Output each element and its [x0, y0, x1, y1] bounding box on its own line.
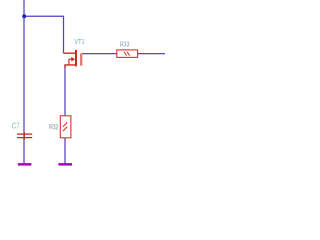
wire: supply rail vertical left: [23, 0, 25, 164]
svg-text:VT1: VT1: [74, 37, 84, 46]
resistor R32: [60, 116, 71, 138]
wire: R32 to ground: [64, 138, 66, 164]
svg-text:R32: R32: [49, 124, 58, 131]
wire: top branch horizontal to drain: [24, 16, 64, 53]
wire: R33 to right edge: [138, 53, 165, 55]
substrate arrow: [69, 58, 72, 60]
pin: drain lead: [64, 52, 76, 54]
pin: source lead: [65, 65, 75, 68]
wire: source to R32: [64, 66, 66, 117]
gate bar: [80, 53, 82, 65]
transistor VT1 (MOSFET): [64, 50, 82, 68]
capacitor C7: [17, 132, 32, 140]
ground: right: [58, 163, 72, 166]
svg-text:R33: R33: [120, 42, 129, 49]
substrate-to-source link: [68, 59, 70, 65]
channel bar: [75, 50, 77, 67]
ground: left: [18, 163, 32, 166]
resistor R33: [117, 50, 138, 58]
svg-text:C7: C7: [12, 120, 20, 130]
wire: gate to R33: [82, 53, 117, 55]
node: junction dot on rail: [22, 14, 26, 18]
